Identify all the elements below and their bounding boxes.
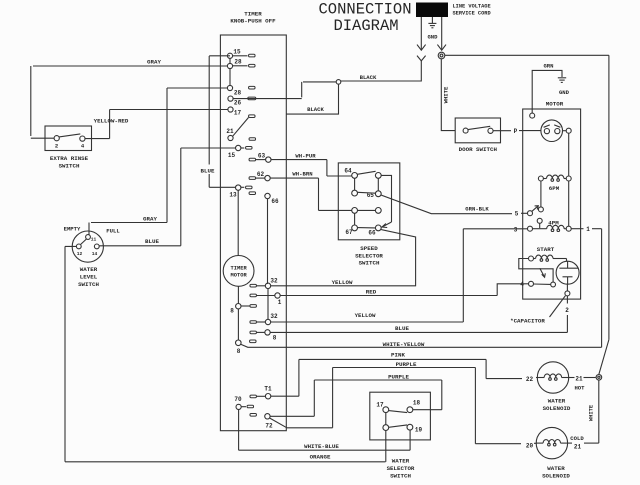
timer contact 8 (first) xyxy=(236,304,241,309)
wire PURPLE (first) to cold solenoid 20 xyxy=(287,368,521,444)
svg-text:WHITE-BLUE: WHITE-BLUE xyxy=(304,443,339,450)
wire GRN-BLK 65 to motor 5 xyxy=(381,195,512,214)
wire GRAY left rail xyxy=(31,66,228,138)
wire 15-28 link xyxy=(229,58,231,63)
door switch contact left xyxy=(463,128,468,133)
svg-text:BLUE: BLUE xyxy=(395,325,409,332)
wire capacitor 2 riser upper xyxy=(566,296,568,304)
timer outline box xyxy=(220,35,286,431)
start winding xyxy=(529,256,534,261)
svg-text:YELLOW-RED: YELLOW-RED xyxy=(94,118,129,125)
svg-text:RED: RED xyxy=(366,288,377,295)
svg-text:SOLENOID: SOLENOID xyxy=(543,405,571,412)
speed selector arm row3 xyxy=(358,209,376,211)
wire P to motor xyxy=(519,130,541,132)
speed selector contact row3 left xyxy=(352,208,358,214)
water level contact 14 (full) xyxy=(94,244,99,249)
svg-text:28: 28 xyxy=(234,59,242,66)
svg-text:28: 28 xyxy=(234,89,242,96)
water level switch arm xyxy=(81,239,87,244)
wire motor right rail upper xyxy=(568,133,570,176)
wire solenoid to 21 xyxy=(569,377,575,379)
capacitor pointer line xyxy=(550,296,566,317)
svg-text:SWITCH: SWITCH xyxy=(59,163,80,170)
svg-text:YELLOW: YELLOW xyxy=(355,312,376,319)
svg-text:YELLOW: YELLOW xyxy=(332,279,353,286)
svg-text:SWITCH: SWITCH xyxy=(78,281,99,288)
svg-text:62: 62 xyxy=(257,171,265,178)
svg-text:WATER: WATER xyxy=(547,465,565,472)
wire door switch to P xyxy=(493,130,511,132)
wire 3 to yellow riser xyxy=(463,229,521,322)
svg-text:BLACK: BLACK xyxy=(307,106,324,113)
svg-text:WATER: WATER xyxy=(548,398,566,405)
capacitor terminal 2 xyxy=(565,291,570,296)
svg-text:32: 32 xyxy=(270,313,278,320)
wire RED xyxy=(280,295,497,297)
start switch arm xyxy=(534,283,551,285)
extra rinse switch xyxy=(45,126,92,151)
svg-text:MOTOR: MOTOR xyxy=(231,272,248,278)
svg-text:GRAY: GRAY xyxy=(143,216,157,223)
wire 1 to riser xyxy=(592,228,602,230)
wire PINK to hot solenoid 22 xyxy=(299,359,522,396)
coil loops START xyxy=(540,259,543,262)
timer contact 1 xyxy=(250,294,257,297)
wire 4 to red riser xyxy=(497,284,525,296)
svg-text:SPEED: SPEED xyxy=(360,245,378,252)
extra rinse contact 4 xyxy=(80,136,85,141)
water level contact 11 (empty) xyxy=(86,235,91,240)
svg-text:70: 70 xyxy=(234,396,242,403)
wire PURPLE (second) to valve 18 xyxy=(314,380,442,416)
svg-text:19: 19 xyxy=(415,427,423,434)
wire WHITE-BLUE 70 to valve 19 xyxy=(239,410,411,451)
svg-text:2: 2 xyxy=(565,307,569,314)
svg-text:6PM: 6PM xyxy=(549,185,560,192)
protector tick left xyxy=(544,125,550,127)
svg-text:P: P xyxy=(514,128,518,135)
wire riser to water level top contact xyxy=(88,223,90,235)
svg-text:DOOR SWITCH: DOOR SWITCH xyxy=(459,146,498,153)
svg-text:5: 5 xyxy=(515,211,519,218)
timer contact 15 (second) xyxy=(236,145,241,150)
water solenoid COLD xyxy=(536,427,567,458)
svg-text:32: 32 xyxy=(270,278,278,285)
svg-text:T1: T1 xyxy=(264,386,272,393)
svg-text:GND: GND xyxy=(427,34,438,41)
svg-text:PURPLE: PURPLE xyxy=(388,373,409,380)
wire YELLOW-RED xyxy=(85,110,228,139)
start switch arm arrow line xyxy=(540,268,545,277)
junction hot-cold white xyxy=(596,375,602,381)
speed switch arm xyxy=(532,206,538,211)
wire motor right rail lower xyxy=(568,181,570,226)
extra rinse contact 2 xyxy=(54,136,59,141)
motor winding 4PM xyxy=(528,226,533,231)
svg-text:CONNECTION: CONNECTION xyxy=(318,1,411,19)
wire diagonal to hot valve junction xyxy=(599,340,609,375)
speed selector arm 65 xyxy=(357,191,375,194)
timer 72 arm to purple branch xyxy=(270,418,287,428)
svg-text:64: 64 xyxy=(344,168,352,175)
wire 13 to timer motor xyxy=(237,190,239,255)
svg-text:WH-BRN: WH-BRN xyxy=(292,171,312,178)
svg-text:21: 21 xyxy=(226,128,234,135)
svg-text:GRN-BLK: GRN-BLK xyxy=(465,206,489,213)
speed switch pivot (5) xyxy=(528,211,533,216)
wire timer motor to 8 xyxy=(237,286,239,303)
svg-text:GND: GND xyxy=(559,89,570,96)
svg-text:21: 21 xyxy=(574,444,582,451)
door switch arm xyxy=(468,126,490,129)
svg-text:PINK: PINK xyxy=(391,351,405,358)
svg-text:ORANGE: ORANGE xyxy=(310,454,331,461)
wire timer 26 to black riser xyxy=(233,98,302,100)
motor thermal protector circle xyxy=(541,120,563,142)
motor outline box xyxy=(523,109,581,299)
wire BLACK lead to junction xyxy=(341,61,421,81)
svg-text:1: 1 xyxy=(278,299,282,306)
svg-text:8: 8 xyxy=(230,308,234,315)
wire BLUE 15 to water level switch xyxy=(100,148,236,246)
svg-text:WHITE-YELLOW: WHITE-YELLOW xyxy=(383,341,425,348)
wire row1 right to 66 xyxy=(381,175,391,222)
svg-text:LEVEL: LEVEL xyxy=(80,274,98,281)
svg-text:63: 63 xyxy=(258,153,266,160)
svg-text:LINE VOLTAGE: LINE VOLTAGE xyxy=(453,4,491,10)
timer pad 26 row xyxy=(248,97,256,100)
start switch pivot (4) xyxy=(529,281,534,286)
door switch xyxy=(455,118,500,143)
timer contact 72 xyxy=(250,414,257,417)
coil loops hot solenoid xyxy=(549,378,552,381)
wire protector to right rail xyxy=(563,130,567,132)
svg-text:WH-PUR: WH-PUR xyxy=(295,153,316,160)
svg-text:11: 11 xyxy=(91,237,97,243)
coil loops 6PM xyxy=(551,179,554,182)
svg-text:BLACK: BLACK xyxy=(360,74,377,81)
junction black wire xyxy=(336,80,341,85)
wire into 66 xyxy=(382,222,391,227)
svg-text:GRN: GRN xyxy=(543,62,553,69)
door switch contact right xyxy=(488,128,493,133)
svg-text:17: 17 xyxy=(376,402,384,409)
ground GND (motor) xyxy=(558,77,566,79)
protector tick right xyxy=(554,125,560,127)
water level contact 12 xyxy=(76,244,81,249)
connector V on black lead xyxy=(417,56,426,61)
svg-text:START: START xyxy=(537,246,555,253)
timer contact 17 xyxy=(228,107,233,112)
svg-text:14: 14 xyxy=(92,251,98,257)
svg-text:12: 12 xyxy=(77,251,83,257)
timer contact 66 xyxy=(249,192,256,195)
svg-text:SWITCH: SWITCH xyxy=(359,260,380,267)
coil loops 4PM xyxy=(551,229,554,232)
water selector arm 19 xyxy=(389,425,408,427)
svg-text:EMPTY: EMPTY xyxy=(64,226,81,233)
svg-text:PURPLE: PURPLE xyxy=(396,361,417,368)
svg-text:SELECTOR: SELECTOR xyxy=(387,465,415,472)
speed switch arm arrowhead xyxy=(535,206,539,210)
timer contact 8 (third) xyxy=(236,340,242,346)
wire timer 15 to 13 riser xyxy=(209,56,235,188)
wire 8-8 link xyxy=(237,309,239,340)
wire 66 to yellow xyxy=(381,230,416,287)
svg-text:WATER: WATER xyxy=(392,458,410,465)
extra rinse switch arm xyxy=(59,134,80,137)
speed selector arm 64 xyxy=(357,171,375,174)
svg-text:67: 67 xyxy=(345,229,353,236)
wire 64 to row2 xyxy=(354,178,356,190)
svg-text:KNOB-PUSH OFF: KNOB-PUSH OFF xyxy=(230,18,276,25)
wire YELLOW first xyxy=(271,285,416,287)
svg-text:MOTOR: MOTOR xyxy=(546,101,564,108)
svg-text:4: 4 xyxy=(520,281,524,288)
speed selector switch xyxy=(338,163,400,240)
svg-text:SERVICE CORD: SERVICE CORD xyxy=(453,11,491,17)
water selector contact lower-left xyxy=(383,425,389,431)
svg-text:1: 1 xyxy=(586,226,590,233)
svg-text:WHITE: WHITE xyxy=(589,404,595,421)
ground GND of service cord xyxy=(431,17,433,23)
svg-text:22: 22 xyxy=(526,376,534,383)
svg-text:15: 15 xyxy=(228,152,236,159)
svg-text:26: 26 xyxy=(234,99,242,106)
wire GRN to chassis ground xyxy=(532,70,562,113)
svg-text:DIAGRAM: DIAGRAM xyxy=(333,17,398,35)
svg-text:66: 66 xyxy=(271,198,279,205)
svg-text:13: 13 xyxy=(229,192,237,199)
svg-text:72: 72 xyxy=(265,423,273,430)
wire white down to cold 21 xyxy=(598,380,600,443)
capacitor xyxy=(556,261,579,284)
motor ground pin xyxy=(530,113,535,118)
timer contact 26 xyxy=(228,96,233,101)
svg-text:TIMER: TIMER xyxy=(231,265,248,271)
speed selector contact row2 left xyxy=(352,190,358,196)
wire 4PM to 1 xyxy=(571,228,583,230)
wire start winding loop to switch contact xyxy=(519,259,553,283)
wire water level full to timer 28 xyxy=(91,88,227,223)
speed switch lower throw contact xyxy=(537,218,542,223)
water solenoid HOT xyxy=(537,362,568,393)
wire 72 to purple riser xyxy=(270,415,314,417)
svg-text:8: 8 xyxy=(273,335,277,342)
timer contact 28 (second) xyxy=(227,85,232,90)
svg-text:FULL: FULL xyxy=(106,228,120,235)
wire water level 12 to orange rail xyxy=(65,246,386,461)
wire YELLOW second xyxy=(271,321,464,323)
svg-text:GRAY: GRAY xyxy=(147,59,161,66)
svg-text:BLUE: BLUE xyxy=(145,238,159,245)
wire 5 stub xyxy=(521,212,528,214)
wire 32-32 link xyxy=(267,289,269,320)
lead L1 (black) with arrow xyxy=(420,17,422,50)
svg-text:EXTRA RINSE: EXTRA RINSE xyxy=(50,155,89,162)
timer contact 13 xyxy=(236,185,241,190)
svg-text:SOLENOID: SOLENOID xyxy=(542,473,570,480)
wire 6PM to speed contact xyxy=(540,181,542,207)
svg-text:COLD: COLD xyxy=(570,435,584,442)
wire 4 stub xyxy=(525,283,529,285)
svg-text:SELECTOR: SELECTOR xyxy=(355,252,383,259)
wire row1-65 link xyxy=(377,178,379,191)
svg-text:TIMER: TIMER xyxy=(244,11,262,18)
junction white lead xyxy=(438,52,445,59)
motor winding 6PM xyxy=(538,176,543,181)
speed switch throw contact xyxy=(538,207,543,212)
speed selector arm 67 xyxy=(358,227,376,229)
svg-text:3: 3 xyxy=(514,226,518,233)
svg-text:SWITCH: SWITCH xyxy=(390,473,411,480)
wire BLUE (to capacitor) xyxy=(270,331,567,333)
svg-text:WATER: WATER xyxy=(80,266,98,273)
motor internal junction xyxy=(566,128,571,133)
wire right outer rail down xyxy=(608,55,610,339)
wire capacitor 2 riser to blue xyxy=(566,315,568,332)
wire WHITE-YELLOW xyxy=(241,344,602,347)
water level switch xyxy=(72,231,103,262)
svg-text:66: 66 xyxy=(368,230,376,237)
arrow into 66 xyxy=(382,224,387,228)
timer switch arm 21 xyxy=(233,118,249,137)
wire white top rail to right side xyxy=(445,54,609,56)
wire white riser to door switch xyxy=(441,59,455,131)
wire WH-PUR to 64 xyxy=(271,160,352,176)
svg-text:BLUE: BLUE xyxy=(201,168,215,175)
lead L2 (white) with arrow xyxy=(441,17,443,50)
wire WH-BRN to speed switch xyxy=(270,178,352,210)
svg-text:17: 17 xyxy=(234,109,242,116)
start switch throw contact xyxy=(551,282,556,287)
wire black riser to timer 26 xyxy=(302,82,337,98)
wire 3 stub xyxy=(522,228,528,230)
svg-text:20: 20 xyxy=(526,443,534,450)
wire 17 to lower-left xyxy=(385,413,387,425)
wire 1 riser down to white-yellow xyxy=(601,229,603,348)
svg-text:8: 8 xyxy=(237,348,241,355)
wire T1 to pink riser xyxy=(271,395,299,397)
wire start to capacitor xyxy=(566,259,568,262)
svg-text:WHITE: WHITE xyxy=(443,86,450,103)
speed selector contact row1 right xyxy=(375,173,381,179)
water selector switch xyxy=(370,392,431,440)
wire BLACK branch to timer edge xyxy=(287,84,339,114)
timer contact 8 (blue row) xyxy=(250,331,257,334)
wire row3 to 67 xyxy=(354,213,356,225)
svg-text:18: 18 xyxy=(413,400,421,407)
svg-text:*CAPACITOR: *CAPACITOR xyxy=(510,318,545,325)
water selector arm 17-18 xyxy=(389,411,408,413)
coil loops cold solenoid xyxy=(548,443,551,446)
service cord plug (black block) xyxy=(416,3,448,18)
wire 66 down to 32 contacts xyxy=(267,199,269,284)
svg-text:15: 15 xyxy=(233,49,241,56)
speed selector contact row3 right xyxy=(375,208,381,214)
timer pad above 21 xyxy=(249,115,256,118)
timer motor xyxy=(223,256,254,287)
svg-text:HOT: HOT xyxy=(574,385,585,392)
wire 17 down to orange xyxy=(385,431,387,462)
svg-text:21: 21 xyxy=(575,376,583,383)
